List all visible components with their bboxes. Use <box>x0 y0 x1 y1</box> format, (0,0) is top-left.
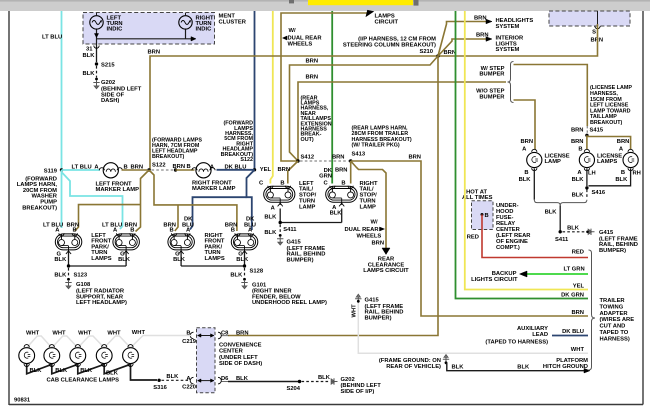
splice right of S122 <box>174 168 177 171</box>
splice S411 <box>279 221 282 224</box>
svg-text:LAMPS: LAMPS <box>205 256 225 262</box>
wire BLK from left turn indicator <box>96 44 98 62</box>
wire BRN to license lamp RH <box>587 137 631 150</box>
arrow to lamps circuit <box>366 10 374 16</box>
svg-text:S412: S412 <box>301 154 315 160</box>
svg-text:DASH): DASH) <box>101 98 119 104</box>
wire DK GRN vertical and trailer <box>456 11 589 299</box>
wire BRN to headlights system <box>438 22 486 57</box>
svg-text:BUMPER: BUMPER <box>479 72 505 78</box>
svg-text:HITCH GROUND: HITCH GROUND <box>543 364 588 370</box>
svg-text:S122: S122 <box>152 162 166 168</box>
lamp cab clearance 3 <box>70 348 86 364</box>
svg-text:HARNESS): HARNESS) <box>600 336 630 342</box>
svg-text:LT GRN: LT GRN <box>564 267 585 273</box>
lamp right front marker <box>196 163 211 178</box>
svg-text:G415: G415 <box>599 230 614 236</box>
wire BLK tail lamp grounds <box>279 209 281 223</box>
dashed splice wire S412-S413 <box>300 160 349 162</box>
wire BRN S413 to right tail B <box>350 161 352 184</box>
svg-text:RH: RH <box>633 171 641 177</box>
svg-text:C219: C219 <box>182 339 197 345</box>
svg-text:S411: S411 <box>283 227 297 233</box>
svg-text:S204: S204 <box>286 386 300 392</box>
svg-text:BRN: BRN <box>408 155 421 161</box>
svg-text:YEL: YEL <box>260 167 272 173</box>
svg-text:REAR OF VEHICLE): REAR OF VEHICLE) <box>386 364 441 370</box>
splice dk blu <box>253 168 256 171</box>
svg-text:DUAL REAR: DUAL REAR <box>344 227 379 233</box>
svg-text:BLK: BLK <box>572 193 585 199</box>
svg-text:B: B <box>280 181 284 187</box>
svg-text:S122: S122 <box>240 157 253 163</box>
svg-text:BRN: BRN <box>521 139 534 145</box>
svg-text:LAMPS: LAMPS <box>597 159 617 165</box>
svg-text:BLK: BLK <box>54 257 67 263</box>
svg-text:S413: S413 <box>352 152 366 158</box>
svg-text:B: B <box>130 228 134 234</box>
svg-text:CENTER: CENTER <box>219 349 244 355</box>
brace license grounds <box>534 200 587 206</box>
svg-text:B: B <box>524 170 528 176</box>
svg-text:BLK: BLK <box>452 365 465 371</box>
svg-text:BLK: BLK <box>519 177 532 183</box>
lamp cab clearance 2 <box>44 348 60 364</box>
diagram border frame <box>8 11 10 405</box>
svg-text:DK BLU: DK BLU <box>562 329 584 335</box>
svg-text:ADAPTER: ADAPTER <box>600 311 629 317</box>
splice S415 <box>586 126 588 134</box>
svg-text:BRN: BRN <box>335 168 348 174</box>
svg-text:WHT: WHT <box>78 330 92 336</box>
wire BLK cab lamps <box>27 363 157 380</box>
svg-text:DK: DK <box>184 216 193 222</box>
svg-text:90831: 90831 <box>14 398 31 404</box>
svg-text:TAPED TO: TAPED TO <box>600 330 629 336</box>
svg-text:G415: G415 <box>287 239 302 245</box>
svg-text:B: B <box>621 170 625 176</box>
svg-text:B: B <box>124 165 128 171</box>
svg-text:WHEELS: WHEELS <box>357 234 382 240</box>
brace trailer towing adapter <box>589 250 596 370</box>
svg-text:BRN: BRN <box>571 139 584 145</box>
svg-text:BRN: BRN <box>236 331 249 337</box>
wire inside cluster with arrow <box>96 29 98 44</box>
svg-text:BLK: BLK <box>264 214 277 220</box>
svg-text:LEFT HEADLAMP): LEFT HEADLAMP) <box>76 300 127 306</box>
svg-text:BUMPER): BUMPER) <box>599 248 626 254</box>
svg-text:LAMPS CIRCUIT: LAMPS CIRCUIT <box>363 268 409 274</box>
svg-text:(W/ TRAILER PKG): (W/ TRAILER PKG) <box>352 143 400 149</box>
svg-text:RED: RED <box>572 250 584 256</box>
svg-text:BLK: BLK <box>567 225 580 231</box>
svg-text:BLK: BLK <box>173 257 186 263</box>
svg-text:BUMPER: BUMPER <box>479 94 505 100</box>
wire LT BLU to left front marker lamp <box>62 169 101 171</box>
svg-text:BRN: BRN <box>571 128 584 134</box>
svg-text:SYSTEM: SYSTEM <box>496 47 520 53</box>
svg-text:WHT: WHT <box>107 330 121 336</box>
wire DK BLU vertical from top <box>254 11 256 170</box>
svg-text:BRN: BRN <box>173 164 186 170</box>
svg-text:G415: G415 <box>365 298 380 304</box>
lamp license single <box>527 152 542 167</box>
wire BRN rear clearance branch <box>351 161 386 249</box>
wire BRN w/o step bumper lower <box>298 82 506 161</box>
dashed BLK to G415 <box>563 231 587 233</box>
svg-text:W/: W/ <box>289 28 296 34</box>
wire LT BLU branch to right park lamp <box>62 172 123 229</box>
svg-text:TOWING: TOWING <box>600 304 624 310</box>
svg-text:(TAPED TO HARNESS): (TAPED TO HARNESS) <box>485 339 548 345</box>
svg-text:BRN: BRN <box>131 165 144 171</box>
svg-text:SIDE OF DASH): SIDE OF DASH) <box>219 361 262 367</box>
svg-text:MARKER LAMP: MARKER LAMP <box>96 187 140 193</box>
wire BRN lamps circuit feed <box>281 13 368 161</box>
wire BLK license RH ground <box>589 168 631 185</box>
svg-text:BLK: BLK <box>83 53 96 59</box>
wire BRN marker B to S122 <box>122 169 148 171</box>
svg-text:GRN: GRN <box>319 174 332 180</box>
svg-text:CAB CLEARANCE LAMPS: CAB CLEARANCE LAMPS <box>47 378 120 384</box>
svg-text:(UNDER LEFT: (UNDER LEFT <box>219 355 258 361</box>
svg-text:S415: S415 <box>590 128 604 134</box>
wire BLK platform hitch ground <box>446 364 584 371</box>
svg-text:LEAD: LEAD <box>532 332 548 338</box>
svg-text:OUT): OUT) <box>301 137 314 143</box>
svg-text:S316: S316 <box>153 385 167 391</box>
wire BRN license feed w/ step <box>514 65 588 127</box>
wire BRN S413 to trailer <box>351 161 588 316</box>
svg-text:LAMPS: LAMPS <box>91 256 111 262</box>
svg-text:BLK: BLK <box>83 71 96 77</box>
svg-text:LT BLU: LT BLU <box>72 165 92 171</box>
svg-text:CUT AND: CUT AND <box>600 324 626 330</box>
svg-text:G202: G202 <box>101 80 115 86</box>
svg-text:DK: DK <box>246 216 255 222</box>
instrument cluster box <box>83 13 215 45</box>
splice S128 <box>243 264 246 267</box>
splice S122 <box>147 168 150 171</box>
svg-text:B: B <box>170 228 174 234</box>
wire DK BLU auxiliary lead <box>552 335 588 337</box>
lamp cab clearance 4 <box>96 348 112 364</box>
svg-text:S128: S128 <box>250 269 264 275</box>
svg-text:ALL TIMES: ALL TIMES <box>462 195 493 201</box>
svg-text:WHT: WHT <box>571 347 585 353</box>
svg-text:INDIC: INDIC <box>107 27 124 33</box>
wire WHT frame ground <box>358 302 588 353</box>
svg-text:BLK: BLK <box>118 257 131 263</box>
svg-text:WHT: WHT <box>352 304 358 318</box>
splice S413 <box>349 159 352 162</box>
svg-text:BRN: BRN <box>306 59 319 65</box>
svg-text:LIGHTS CIRCUIT: LIGHTS CIRCUIT <box>471 277 518 283</box>
wire BRN main horizontal y56 <box>150 24 598 170</box>
svg-text:B: B <box>187 164 191 170</box>
wire BRN S122 to right park lamps <box>149 170 237 231</box>
svg-text:B: B <box>341 181 345 187</box>
ground G415 left frame rail <box>279 234 282 237</box>
wire LT GRN backup lights <box>526 273 588 275</box>
wire BRN to right marker lamp B <box>176 169 195 171</box>
browser chrome band <box>0 0 650 11</box>
wire BLK D6 to G202 <box>228 381 298 383</box>
svg-text:S416: S416 <box>592 190 606 196</box>
svg-text:(WIRES ARE: (WIRES ARE <box>600 317 635 323</box>
svg-text:BLK: BLK <box>80 368 93 374</box>
svg-text:COMPT.): COMPT.) <box>496 245 520 251</box>
ground G108 <box>67 278 70 281</box>
convenience center box <box>197 328 216 393</box>
splice S412 network <box>296 159 299 162</box>
svg-text:BREAKOUT): BREAKOUT) <box>590 120 623 126</box>
svg-text:BLK: BLK <box>517 365 530 371</box>
svg-text:S: S <box>592 30 596 36</box>
svg-text:S123: S123 <box>74 273 88 279</box>
wire LT BLU vertical from top <box>61 11 63 170</box>
svg-text:BLK: BLK <box>30 368 43 374</box>
svg-text:C8: C8 <box>221 331 229 337</box>
svg-text:CIRCUIT: CIRCUIT <box>375 20 399 26</box>
svg-text:SYSTEM: SYSTEM <box>496 24 520 30</box>
svg-text:BLK: BLK <box>545 210 558 216</box>
lamp license LH <box>579 152 594 167</box>
svg-text:DK BLU: DK BLU <box>225 164 247 170</box>
svg-text:STEERING COLUMN BREAKOUT): STEERING COLUMN BREAKOUT) <box>343 42 436 48</box>
svg-text:LAMP: LAMP <box>299 204 316 210</box>
instrument cluster box right <box>549 11 630 26</box>
wire BLK license LH ground <box>586 168 588 186</box>
svg-text:BUMPER): BUMPER) <box>365 315 392 321</box>
dashed splice wire S122 <box>152 169 174 171</box>
arrow to rear clearance lamps circuit <box>382 248 390 255</box>
wire YEL vertical to left tail lamp <box>270 11 272 184</box>
ground G415 frame rail mid <box>355 294 361 302</box>
svg-text:WHT: WHT <box>52 330 66 336</box>
wire YEL vertical and trailer <box>465 11 588 290</box>
svg-text:BLK: BLK <box>330 211 343 217</box>
svg-text:BLK: BLK <box>106 371 119 377</box>
ground G415 rear <box>588 229 594 235</box>
brace split step bumper <box>508 62 514 103</box>
wire BLK left park grounds <box>68 253 70 267</box>
splice S210 <box>436 54 439 57</box>
wire DK GRN vertical to right tail lamp <box>331 11 333 184</box>
svg-text:B: B <box>578 146 582 152</box>
svg-text:CONVENIENCE: CONVENIENCE <box>219 343 262 349</box>
ground G202 bottom <box>331 378 337 384</box>
svg-text:BRN: BRN <box>476 33 489 39</box>
svg-text:RED: RED <box>467 235 479 241</box>
splice S119 <box>60 168 63 171</box>
svg-text:C220: C220 <box>182 384 196 390</box>
wire BRN license feed w/o step <box>514 100 536 150</box>
splice S416 <box>585 186 588 189</box>
svg-text:SIDE OF I/P): SIDE OF I/P) <box>341 389 375 395</box>
lamp left tail stop turn <box>264 186 295 202</box>
svg-text:31: 31 <box>86 47 93 53</box>
svg-text:BRN: BRN <box>444 50 457 56</box>
wire WHT cab lamps <box>27 336 192 348</box>
svg-text:MARKER LAMP: MARKER LAMP <box>192 186 236 192</box>
svg-text:S411: S411 <box>555 237 569 243</box>
svg-text:BRN: BRN <box>306 75 319 81</box>
svg-text:BRN: BRN <box>617 139 630 145</box>
lamp left front park turn 1 <box>55 234 82 250</box>
wire BRN S122 down to left park lamps <box>136 170 150 232</box>
splice S411 right <box>559 230 562 233</box>
svg-text:BRN: BRN <box>278 167 291 173</box>
lamp left front park turn 2 <box>113 234 139 250</box>
wire BLK license single ground <box>533 168 535 199</box>
svg-text:BREAKOUT): BREAKOUT) <box>152 154 185 160</box>
svg-text:INDIC: INDIC <box>196 27 213 33</box>
wire DK BLU down to park lamps <box>247 170 255 230</box>
svg-text:YEL: YEL <box>573 284 585 290</box>
svg-text:LAMP: LAMP <box>545 159 562 165</box>
svg-text:LH: LH <box>588 171 596 177</box>
svg-text:BLK: BLK <box>230 273 243 279</box>
svg-text:BLK: BLK <box>55 368 68 374</box>
splice S316 <box>157 379 160 382</box>
svg-text:TRAILER: TRAILER <box>600 298 626 304</box>
underhood fuse-relay center box <box>472 201 494 230</box>
svg-text:S119: S119 <box>44 169 58 175</box>
lamp cab clearance 1 <box>19 348 35 364</box>
lamp right turn indicator <box>179 16 192 29</box>
svg-text:G108: G108 <box>76 282 91 288</box>
wire BRN S210 to convenience center <box>228 56 438 336</box>
svg-text:BREAKOUT): BREAKOUT) <box>22 205 57 211</box>
wire RED to trailer <box>482 215 588 258</box>
svg-text:LAMP: LAMP <box>360 204 377 210</box>
splice S215 <box>95 62 98 65</box>
lamp right front park turn 1 <box>168 234 195 250</box>
svg-text:BRN: BRN <box>571 310 584 316</box>
svg-text:W/: W/ <box>371 220 378 226</box>
wire BRN w/step bumper upper <box>290 56 439 161</box>
ground G202 <box>95 78 98 81</box>
lamp cab clearance 5 <box>123 348 139 364</box>
lamp left front marker <box>103 163 118 178</box>
svg-text:BLK: BLK <box>54 273 67 279</box>
svg-text:B: B <box>485 213 489 219</box>
yellow highlight in chrome <box>308 0 413 5</box>
svg-text:BLK: BLK <box>166 374 179 380</box>
wire BLK dashed to G202 <box>96 66 98 78</box>
svg-text:BRN: BRN <box>148 50 161 56</box>
svg-text:BLK: BLK <box>572 177 585 183</box>
svg-text:DK GRN: DK GRN <box>561 293 584 299</box>
svg-text:BUMPER): BUMPER) <box>287 257 314 263</box>
wire BRN S412 to left tail B <box>288 161 298 184</box>
wire BRN to license lamp LH <box>586 135 588 149</box>
svg-text:BRN: BRN <box>474 16 487 22</box>
svg-text:BLK: BLK <box>236 257 249 263</box>
svg-text:S215: S215 <box>101 63 115 69</box>
lamp right tail stop turn <box>326 186 358 202</box>
ground G101 <box>243 278 246 281</box>
svg-text:BRN: BRN <box>372 241 385 247</box>
svg-text:BRN: BRN <box>332 155 345 161</box>
svg-text:WHT: WHT <box>26 330 40 336</box>
svg-text:LT BLU: LT BLU <box>42 35 62 41</box>
wire BLK right park grounds <box>180 253 182 267</box>
svg-text:WHT: WHT <box>132 330 146 336</box>
wire BRN to interior lights system <box>438 39 486 56</box>
svg-text:LT BLU: LT BLU <box>43 223 63 229</box>
ground frame rear of vehicle <box>443 355 449 364</box>
splice S123 <box>67 264 70 267</box>
pin S <box>595 26 600 29</box>
lamp right front park turn 2 <box>231 234 257 250</box>
svg-text:CLUSTER: CLUSTER <box>219 20 247 26</box>
svg-text:BLK: BLK <box>318 375 331 381</box>
svg-text:D6: D6 <box>221 376 229 382</box>
connector C219 <box>190 332 193 339</box>
svg-text:S210: S210 <box>419 49 433 55</box>
lamp left turn indicator <box>90 16 103 29</box>
wire BLK combined license ground <box>559 206 561 232</box>
lamp license RH <box>623 152 638 167</box>
wire LT BLU down to left park lamp <box>61 170 63 228</box>
svg-text:B: B <box>73 228 77 234</box>
connector C220 <box>190 377 193 384</box>
svg-text:B: B <box>231 228 235 234</box>
svg-text:UNDERHOOD REEL LAMP): UNDERHOOD REEL LAMP) <box>252 300 327 306</box>
svg-text:WHEELS: WHEELS <box>288 41 313 47</box>
svg-text:BLK: BLK <box>615 177 628 183</box>
wire DK BLU to right marker lamp A <box>217 169 255 171</box>
svg-text:BLK: BLK <box>264 230 277 236</box>
